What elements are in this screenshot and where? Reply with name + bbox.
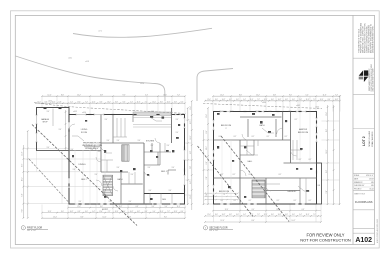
svg-text:BED 2: BED 2 xyxy=(81,179,86,181)
svg-text:ROOM: ROOM xyxy=(81,132,88,134)
first floor top dimension line 2 xyxy=(36,102,185,104)
svg-text:10'-2": 10'-2" xyxy=(77,94,81,96)
svg-text:12'-4": 12'-4" xyxy=(326,112,328,116)
svg-text:8'-6": 8'-6" xyxy=(251,220,255,222)
second floor leader lines xyxy=(246,128,310,191)
svg-text:8'-2": 8'-2" xyxy=(269,111,272,113)
second floor interior partitions xyxy=(214,112,317,205)
first floor grade line (dashed diagonal) xyxy=(32,125,137,226)
svg-text:10'-2": 10'-2" xyxy=(22,177,24,181)
svg-text:HALL: HALL xyxy=(248,160,253,163)
svg-text:9'-0": 9'-0" xyxy=(326,190,328,194)
svg-text:DESIGNER BEFORE ANY WORK.: DESIGNER BEFORE ANY WORK. xyxy=(371,25,374,53)
svg-text:9'-6": 9'-6" xyxy=(47,147,50,149)
first floor stair treads (lower run with cross) xyxy=(103,175,113,195)
second floor windows xyxy=(213,111,318,206)
svg-text:11'-6": 11'-6" xyxy=(190,195,192,199)
svg-text:12'-4": 12'-4" xyxy=(264,99,268,101)
svg-text:DINING: DINING xyxy=(79,164,86,166)
svg-text:MS: MS xyxy=(371,185,373,187)
svg-text:BEDROOM: BEDROOM xyxy=(219,191,230,193)
second floor top extension lines xyxy=(213,96,340,111)
svg-text:9'-6": 9'-6" xyxy=(73,169,76,171)
svg-text:12'-4": 12'-4" xyxy=(48,94,52,96)
svg-text:12'-4": 12'-4" xyxy=(220,94,224,96)
svg-text:11'-6": 11'-6" xyxy=(250,214,254,216)
svg-text:8'-2": 8'-2" xyxy=(299,159,302,161)
svg-text:8'-2": 8'-2" xyxy=(295,119,298,121)
svg-text:x 47.0: x 47.0 xyxy=(98,31,102,33)
svg-text:6'-8": 6'-8" xyxy=(22,193,24,197)
svg-text:5'-4": 5'-4" xyxy=(145,94,149,96)
svg-text:10'-2": 10'-2" xyxy=(206,146,208,150)
svg-text:9'-0": 9'-0" xyxy=(190,166,192,170)
svg-text:CHECKED BY: CHECKED BY xyxy=(354,185,365,187)
first floor left extension lines xyxy=(23,149,101,205)
svg-text:11'-6": 11'-6" xyxy=(99,211,103,213)
first floor exterior walls xyxy=(69,115,185,205)
svg-text:9'-6": 9'-6" xyxy=(148,167,151,169)
svg-text:9'-0": 9'-0" xyxy=(289,94,293,96)
svg-text:BATH: BATH xyxy=(118,178,124,181)
second floor wall header marks xyxy=(214,112,317,205)
svg-text:3: 3 xyxy=(224,194,225,196)
svg-text:A102: A102 xyxy=(355,237,372,244)
svg-text:2/5/19: 2/5/19 xyxy=(369,178,374,180)
first floor door swings xyxy=(69,124,160,191)
svg-text:8'-2": 8'-2" xyxy=(279,174,282,176)
project name LOT 2 (rotated) xyxy=(362,130,374,146)
svg-text:10'-2": 10'-2" xyxy=(326,149,328,153)
svg-text:7'-2": 7'-2" xyxy=(177,94,181,96)
second floor interior dimension rows xyxy=(204,193,238,201)
second floor left extension lines xyxy=(204,140,214,204)
sheet number A102 xyxy=(355,237,372,244)
second floor room labels xyxy=(219,124,321,196)
svg-text:x 44.2: x 44.2 xyxy=(296,105,300,107)
svg-text:5'-4": 5'-4" xyxy=(190,181,192,185)
svg-text:10'-2": 10'-2" xyxy=(119,206,123,208)
svg-text:10'-2": 10'-2" xyxy=(130,211,134,213)
first floor interior partitions xyxy=(37,108,185,204)
svg-text:SECOND FLOOR: SECOND FLOOR xyxy=(209,227,228,229)
svg-text:6'-8": 6'-8" xyxy=(190,151,192,155)
first floor plumbing fixtures xyxy=(72,116,180,200)
svg-text:NORTHWEST HOMES LLC: NORTHWEST HOMES LLC xyxy=(369,68,371,91)
contour line upper xyxy=(73,28,212,37)
second floor stair treads xyxy=(252,180,265,198)
second floor right extension lines xyxy=(322,121,340,204)
svg-text:9'-6": 9'-6" xyxy=(172,167,175,169)
svg-text:6'-8": 6'-8" xyxy=(100,94,104,96)
svg-text:5'-4": 5'-4" xyxy=(305,94,309,96)
first floor windows xyxy=(36,114,186,206)
svg-text:10'-2": 10'-2" xyxy=(190,135,192,139)
svg-text:8'-2": 8'-2" xyxy=(252,136,255,138)
second floor grade line A (dashed diagonal) xyxy=(198,146,254,217)
svg-text:UNFINISHED FLOORS: UNFINISHED FLOORS xyxy=(82,145,103,147)
title block info table xyxy=(353,174,375,190)
svg-text:9'-6": 9'-6" xyxy=(167,145,170,147)
svg-text:x 45.5: x 45.5 xyxy=(48,101,52,103)
svg-text:NOAH S 53rd AVE: NOAH S 53rd AVE xyxy=(368,130,371,146)
svg-text:12'-4": 12'-4" xyxy=(92,101,96,103)
first floor central band extra partitions xyxy=(101,143,171,184)
svg-text:12'-4": 12'-4" xyxy=(48,211,52,213)
second floor left dimension strings xyxy=(203,107,209,205)
second floor contour dashed xyxy=(203,104,322,109)
svg-text:8'-6": 8'-6" xyxy=(206,130,208,134)
svg-text:9'-0": 9'-0" xyxy=(122,94,126,96)
svg-text:9'-6": 9'-6" xyxy=(138,140,141,142)
svg-text:LOT 2: LOT 2 xyxy=(362,136,366,146)
first floor room labels xyxy=(41,118,168,211)
svg-text:10'-2": 10'-2" xyxy=(292,220,296,222)
second floor extra partitions xyxy=(240,140,306,204)
svg-text:10'-2": 10'-2" xyxy=(103,216,107,218)
svg-text:11'-6": 11'-6" xyxy=(163,94,167,96)
first floor deck hatch lines xyxy=(133,118,171,128)
first floor top extension lines xyxy=(42,96,185,114)
svg-text:KITCHEN: KITCHEN xyxy=(146,141,155,143)
FOR REVIEW ONLY note xyxy=(300,232,351,242)
first floor faint extension verticals through plan xyxy=(75,150,105,205)
svg-text:11'-6": 11'-6" xyxy=(306,214,310,216)
svg-text:8'-2": 8'-2" xyxy=(249,200,252,202)
contour line lower left xyxy=(16,56,166,101)
svg-text:10'-2": 10'-2" xyxy=(70,211,74,213)
contour elevation labels xyxy=(48,101,154,114)
svg-text:12'-4": 12'-4" xyxy=(320,99,324,101)
svg-text:9'-6": 9'-6" xyxy=(169,190,172,192)
title block left divider xyxy=(352,15,354,244)
svg-text:6'-8": 6'-8" xyxy=(206,161,208,165)
svg-text:BATH: BATH xyxy=(260,124,266,127)
svg-text:8'-2": 8'-2" xyxy=(267,136,270,138)
svg-text:MS: MS xyxy=(371,182,373,184)
svg-text:BEDROOM: BEDROOM xyxy=(221,125,232,127)
svg-text:LIVING: LIVING xyxy=(81,129,88,131)
svg-text:12'-4": 12'-4" xyxy=(206,114,208,118)
svg-text:10'-2": 10'-2" xyxy=(107,101,111,103)
svg-text:6'-8": 6'-8" xyxy=(273,94,277,96)
second floor bottom extension lines xyxy=(214,204,322,222)
svg-text:12'-4": 12'-4" xyxy=(225,209,229,211)
svg-text:FLOORPLANS: FLOORPLANS xyxy=(355,200,373,204)
svg-text:11'-6": 11'-6" xyxy=(323,94,327,96)
svg-text:9'-6": 9'-6" xyxy=(59,129,62,131)
first floor secondary grade segment xyxy=(29,159,68,202)
svg-text:x 44.4: x 44.4 xyxy=(262,102,266,104)
svg-text:8'-6": 8'-6" xyxy=(22,163,24,167)
svg-text:2: 2 xyxy=(205,228,206,230)
svg-text:9'-0": 9'-0" xyxy=(164,216,168,218)
svg-text:9'-0": 9'-0" xyxy=(206,176,208,180)
first floor contour dashed xyxy=(34,103,186,114)
svg-text:BED 1: BED 1 xyxy=(161,171,168,173)
svg-text:10'-2": 10'-2" xyxy=(222,214,226,216)
svg-text:12'-4": 12'-4" xyxy=(53,216,57,218)
garage interior dimension string xyxy=(65,110,67,150)
svg-text:9'-6": 9'-6" xyxy=(149,190,152,192)
svg-text:9'-6": 9'-6" xyxy=(176,132,179,134)
second floor deck walls xyxy=(317,163,322,204)
svg-text:x 45.6: x 45.6 xyxy=(140,83,144,85)
svg-text:8'-2": 8'-2" xyxy=(309,159,312,161)
first floor top dimension line 1 xyxy=(42,95,185,97)
svg-text:9'-6": 9'-6" xyxy=(105,119,108,121)
svg-text:9'-0": 9'-0" xyxy=(22,209,24,213)
second floor drawing title xyxy=(203,226,233,233)
svg-text:10'-2": 10'-2" xyxy=(278,214,282,216)
svg-text:8'-6": 8'-6" xyxy=(190,121,192,125)
svg-text:12'-4": 12'-4" xyxy=(22,151,24,155)
first floor drawing title xyxy=(21,226,48,233)
contour line lower right xyxy=(197,69,233,102)
svg-text:11'-6": 11'-6" xyxy=(160,211,164,213)
svg-text:1/8" = 1'-0": 1/8" = 1'-0" xyxy=(27,230,37,232)
second floor interior dimension texts xyxy=(219,111,312,202)
svg-text:12'-4": 12'-4" xyxy=(115,211,119,213)
svg-text:11'-6": 11'-6" xyxy=(250,99,254,101)
first floor bottom extension lines xyxy=(42,205,185,219)
svg-text:x 44.6: x 44.6 xyxy=(150,111,154,113)
second floor grade line B (dashed diagonal) xyxy=(221,136,289,222)
svg-text:10'-2": 10'-2" xyxy=(52,101,56,103)
svg-text:8'-2": 8'-2" xyxy=(289,111,292,113)
second floor top dimension line 1 xyxy=(213,95,340,97)
first floor right extension lines xyxy=(185,120,193,195)
svg-text:9'-6": 9'-6" xyxy=(129,201,132,203)
svg-text:12'-4": 12'-4" xyxy=(207,99,211,101)
svg-text:8'-2": 8'-2" xyxy=(285,136,288,138)
first floor bottom dimension lines xyxy=(41,206,186,219)
svg-text:1/8" = 1'-0": 1/8" = 1'-0" xyxy=(209,230,219,232)
svg-text:x 45.0: x 45.0 xyxy=(82,112,86,114)
svg-text:6'-8": 6'-8" xyxy=(326,170,328,174)
svg-text:8'-2": 8'-2" xyxy=(221,200,224,202)
second floor top dimension line 2 xyxy=(205,100,340,102)
svg-text:STRESS IN 8'-0": STRESS IN 8'-0" xyxy=(85,148,99,150)
first floor leader lines xyxy=(72,117,162,153)
first floor plan note block xyxy=(82,142,103,150)
svg-text:CONSTRUCTION & DESIGN STUDIO: CONSTRUCTION & DESIGN STUDIO xyxy=(371,63,373,91)
svg-text:LAUNDRY: LAUNDRY xyxy=(287,190,297,193)
company name (rotated) xyxy=(369,63,375,91)
svg-text:2: 2 xyxy=(226,128,227,130)
kitchen counter band xyxy=(133,112,171,116)
svg-text:12'-4": 12'-4" xyxy=(152,101,156,103)
svg-text:MASTER: MASTER xyxy=(299,128,308,131)
svg-text:11'-6": 11'-6" xyxy=(177,206,181,208)
svg-text:SHEET TITLE: SHEET TITLE xyxy=(354,194,366,196)
svg-text:9'-6": 9'-6" xyxy=(117,167,120,169)
svg-text:1/16"=1'-0": 1/16"=1'-0" xyxy=(366,175,374,177)
first floor right dimension strings xyxy=(187,100,193,210)
svg-text:10'-2": 10'-2" xyxy=(167,101,171,103)
svg-text:x 46.1: x 46.1 xyxy=(68,58,72,60)
svg-text:10'-2": 10'-2" xyxy=(222,99,226,101)
company logo xyxy=(359,70,369,82)
svg-text:12'-4": 12'-4" xyxy=(221,220,225,222)
svg-text:GARAGE: GARAGE xyxy=(41,118,50,121)
svg-text:5'-4": 5'-4" xyxy=(206,193,208,197)
second floor plumbing fixtures xyxy=(217,113,312,198)
second floor right dimension strings xyxy=(326,95,341,205)
svg-text:10'-2": 10'-2" xyxy=(278,99,282,101)
svg-text:8'-2": 8'-2" xyxy=(231,111,234,113)
svg-text:x 45.8: x 45.8 xyxy=(85,61,89,63)
svg-text:8'-6": 8'-6" xyxy=(239,94,243,96)
svg-text:12'-4": 12'-4" xyxy=(264,214,268,216)
svg-text:8'-2": 8'-2" xyxy=(309,200,312,202)
contour grade labels near curves xyxy=(68,31,144,86)
first floor wall header marks xyxy=(44,109,185,205)
svg-text:8'-2": 8'-2" xyxy=(277,200,280,202)
first floor garage wing walls xyxy=(37,108,70,151)
sheet title label xyxy=(354,194,373,205)
svg-text:12'-4": 12'-4" xyxy=(174,211,178,213)
plot stamp (rotated, right margin) xyxy=(376,219,379,243)
svg-text:9'-6": 9'-6" xyxy=(176,119,179,121)
svg-text:FIRST FLOOR: FIRST FLOOR xyxy=(27,227,42,229)
second floor exterior walls xyxy=(214,112,317,205)
svg-text:9'-6": 9'-6" xyxy=(79,201,82,203)
svg-text:8'-2": 8'-2" xyxy=(294,200,297,202)
svg-text:8'-6": 8'-6" xyxy=(80,216,84,218)
second floor door swings xyxy=(240,128,297,191)
svg-text:10'-2": 10'-2" xyxy=(335,99,339,101)
svg-text:NOT FOR CONSTRUCTION: NOT FOR CONSTRUCTION xyxy=(300,238,351,243)
svg-text:x 45.2: x 45.2 xyxy=(73,111,77,113)
svg-text:9'-6": 9'-6" xyxy=(117,140,120,142)
svg-text:11'-6": 11'-6" xyxy=(77,101,81,103)
svg-text:PROJECT: PROJECT xyxy=(354,189,361,191)
svg-text:9'-6": 9'-6" xyxy=(107,140,110,142)
svg-text:SHOP: SHOP xyxy=(42,122,48,124)
svg-text:10'-2": 10'-2" xyxy=(256,94,260,96)
first floor interior dimension texts xyxy=(47,111,179,203)
svg-text:11'-6": 11'-6" xyxy=(137,101,141,103)
second floor contour elevation labels xyxy=(262,102,319,108)
svg-text:12'-4": 12'-4" xyxy=(77,206,81,208)
svg-text:8'-2": 8'-2" xyxy=(233,174,236,176)
svg-text:ENTRY: ENTRY xyxy=(102,209,109,211)
svg-text:FINAL, WA 98118: FINAL, WA 98118 xyxy=(371,132,374,147)
svg-text:9'-6": 9'-6" xyxy=(47,111,50,113)
svg-text:9'-6": 9'-6" xyxy=(131,174,134,176)
svg-text:8'-2": 8'-2" xyxy=(234,200,237,202)
second floor faint extension verticals through plan xyxy=(222,112,310,205)
first floor stair treads (upper run) xyxy=(122,145,129,161)
svg-text:BEDROOM: BEDROOM xyxy=(298,132,309,134)
title block section dividers xyxy=(353,58,375,233)
svg-text:8'-6": 8'-6" xyxy=(61,94,65,96)
svg-text:1: 1 xyxy=(23,228,24,230)
title block disclaimer text (rotated) xyxy=(358,22,375,53)
svg-text:12'-4": 12'-4" xyxy=(207,214,211,216)
svg-text:8'-6": 8'-6" xyxy=(326,129,328,133)
svg-text:7'-2": 7'-2" xyxy=(335,94,339,96)
svg-text:9'-6": 9'-6" xyxy=(71,149,74,151)
svg-text:11'-6": 11'-6" xyxy=(306,99,310,101)
svg-text:9'-6": 9'-6" xyxy=(95,174,98,176)
svg-text:8'-2": 8'-2" xyxy=(234,136,237,138)
svg-text:18-22: 18-22 xyxy=(370,189,374,191)
second floor bottom dimension lines xyxy=(204,209,322,223)
svg-text:12'-4": 12'-4" xyxy=(190,106,192,110)
first floor left dimension strings xyxy=(22,130,29,219)
